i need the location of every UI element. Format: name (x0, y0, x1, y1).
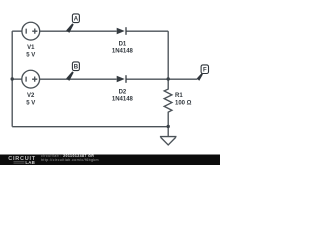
svg-text:5 V: 5 V (26, 100, 35, 106)
svg-text:LAB: LAB (25, 160, 35, 165)
svg-text:V2: V2 (27, 93, 35, 99)
wire right vertical (167, 31, 169, 79)
wire V1 left stub (12, 30, 22, 32)
svg-text:100 Ω: 100 Ω (175, 101, 192, 107)
node flag A (66, 14, 79, 33)
svg-text:D1: D1 (119, 42, 127, 48)
svg-text:5 V: 5 V (26, 52, 35, 58)
svg-text:V1: V1 (27, 45, 35, 51)
wire V1 to D1 (40, 30, 117, 32)
svg-text:1N4148: 1N4148 (112, 48, 134, 54)
ground (160, 127, 177, 145)
diode D2 (117, 75, 126, 83)
watermark bar (0, 155, 220, 166)
wire V2 to D2 (40, 78, 117, 80)
diode D1 (117, 27, 126, 35)
svg-text:B: B (74, 65, 79, 71)
node flag B (66, 62, 79, 81)
wire D1 to corner (126, 30, 168, 32)
voltage source V2 (22, 70, 40, 88)
svg-text:R1: R1 (175, 93, 183, 99)
wire left rail (11, 31, 13, 127)
resistor R1 (164, 79, 172, 127)
wire junction to F (168, 78, 197, 80)
junction node at D2/R1 (167, 77, 170, 80)
svg-text:A: A (74, 17, 79, 23)
wire rail to V2 stub (12, 78, 22, 80)
junction at V2 (11, 77, 14, 80)
CircuitLab logo (8, 156, 36, 165)
svg-text:F: F (203, 68, 207, 74)
wire D2 to junction (126, 78, 168, 80)
voltage source V1 (22, 22, 40, 40)
svg-text:1N4148: 1N4148 (112, 96, 134, 102)
node flag F (197, 65, 209, 81)
junction at ground rail (167, 125, 170, 128)
svg-text:D2: D2 (119, 90, 127, 96)
wire bottom rail (12, 126, 168, 128)
svg-text:http://circuitlab.com/c/f6bgkm: http://circuitlab.com/c/f6bgkm (41, 158, 99, 162)
